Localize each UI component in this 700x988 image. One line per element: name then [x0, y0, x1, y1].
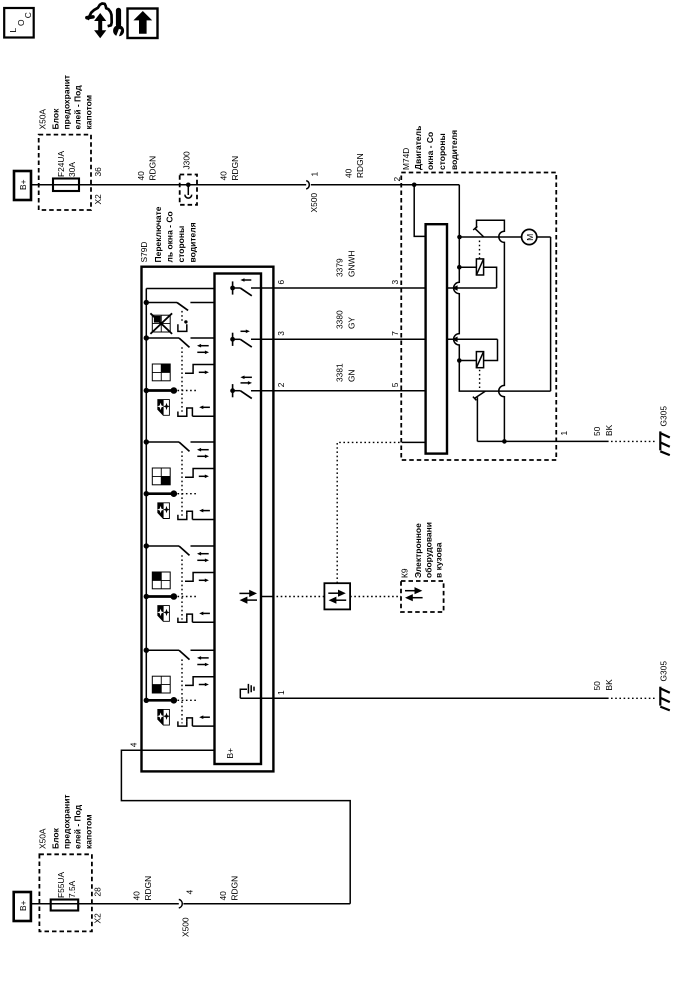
svg-text:40: 40 — [219, 171, 229, 181]
wire v1 supply with crossover loops and to relay2 — [454, 185, 551, 391]
wire label 40 RDGN — [218, 876, 240, 901]
svg-text:S79D: S79D — [139, 242, 149, 263]
svg-text:40: 40 — [136, 171, 146, 181]
svg-text:30A: 30A — [67, 162, 77, 177]
svg-text:40: 40 — [344, 168, 354, 178]
splice J300 — [180, 151, 197, 205]
svg-text:4: 4 — [129, 742, 139, 747]
svg-text:X500: X500 — [309, 193, 319, 213]
svg-text:ль окна - Со: ль окна - Со — [165, 211, 175, 262]
wire fuse to J300 to X500 — [53, 184, 306, 186]
svg-text:X2: X2 — [93, 913, 103, 924]
wire module to relay1 coil (pin3 path) with arrowhead — [447, 285, 497, 291]
svg-text:G305: G305 — [659, 661, 669, 682]
svg-text:водителя: водителя — [188, 222, 198, 262]
svg-text:стороны: стороны — [176, 226, 186, 263]
wire coil2 left — [459, 360, 476, 362]
bus wire B+ inside switch — [145, 289, 147, 701]
svg-text:елей - Под: елей - Под — [73, 804, 83, 849]
svg-text:M: M — [525, 234, 535, 241]
wire B+ to fuse — [31, 903, 51, 905]
svg-text:50: 50 — [592, 426, 602, 436]
wire lockout feed — [146, 288, 214, 290]
group 2 position icon — [157, 503, 170, 519]
mechanical link relay2 — [479, 370, 481, 388]
node ground rail — [502, 439, 507, 444]
wire label 50 BK (switch ground) — [592, 679, 614, 691]
svg-text:C: C — [23, 12, 33, 18]
dotted serial data wire to motor module — [337, 442, 402, 583]
svg-text:28: 28 — [93, 887, 103, 897]
group 3 window icon — [152, 572, 170, 589]
motor M74D dashed outline — [401, 173, 556, 461]
svg-text:BK: BK — [604, 424, 614, 436]
wire relay1 common to motor — [459, 236, 521, 238]
wire pin2 to motor pin5 — [251, 390, 426, 392]
label X50A fuse block 2 — [38, 794, 94, 849]
node relay2 coil feed — [457, 358, 462, 363]
svg-text:F24UA: F24UA — [56, 151, 66, 177]
wire module to relay2 coil (pin7 path) with arrowhead — [447, 337, 498, 343]
wire coil1 to pin3 line — [484, 267, 497, 288]
svg-text:X2: X2 — [93, 194, 103, 205]
group 4 express row — [144, 697, 196, 704]
wire label 50 BK — [592, 424, 614, 436]
svg-text:предохранит: предохранит — [62, 75, 72, 130]
wire label 3380 GY — [335, 310, 357, 329]
wire label 3381 GN — [335, 363, 357, 382]
group 2 mechanical link — [181, 451, 183, 517]
switch S79D outer case — [142, 267, 274, 772]
svg-text:стороны: стороны — [437, 133, 447, 170]
group 2 window icon — [152, 468, 170, 485]
svg-text:Блок: Блок — [51, 827, 61, 849]
group 1 mechanical link — [181, 347, 183, 413]
ground G305 (motor) — [659, 406, 670, 455]
wire pin4 B+ feed — [121, 750, 350, 903]
svg-text:3381: 3381 — [335, 363, 345, 382]
svg-text:Блок: Блок — [51, 108, 61, 130]
window module bar U1 — [426, 224, 447, 453]
relay2 coil — [476, 352, 483, 368]
svg-text:J300: J300 — [182, 151, 192, 170]
wire pin6 to motor pin3 — [251, 287, 426, 289]
wire X500 to motor — [311, 184, 460, 186]
svg-text:40: 40 — [132, 891, 142, 901]
dotted wire to ground G305 switch — [611, 697, 655, 699]
label X50A fuse block — [38, 75, 94, 130]
group 4 actuator bracket — [178, 715, 215, 726]
connector X500 pin 4 — [179, 890, 195, 938]
group 1 position icon — [157, 400, 170, 416]
svg-text:предохранит: предохранит — [62, 794, 72, 849]
svg-text:5: 5 — [390, 382, 400, 387]
svg-text:водителя: водителя — [449, 130, 459, 170]
node pin2 junction — [412, 183, 417, 188]
svg-text:B+: B+ — [18, 179, 28, 190]
svg-text:Электронное: Электронное — [413, 523, 423, 578]
wire pin3 to motor pin7 — [251, 338, 426, 340]
fuse F55UA 7.5A — [51, 872, 78, 911]
label S79D window switch driver side — [139, 206, 198, 262]
group 3 window switch (up/down contacts) — [144, 543, 215, 582]
svg-text:1: 1 — [559, 431, 569, 436]
output contact pin 6 — [230, 281, 252, 295]
group 3 mechanical link — [181, 555, 183, 619]
group 2 actuator bracket — [178, 509, 215, 520]
svg-text:капотом: капотом — [84, 814, 94, 849]
battery B+ feed (bottom circuit) — [14, 892, 31, 921]
motor armature M — [522, 229, 537, 244]
svg-text:RDGN: RDGN — [355, 153, 365, 178]
svg-text:36: 36 — [93, 167, 103, 177]
serial data junction icon — [324, 583, 350, 609]
wire coil1 left — [459, 266, 476, 268]
svg-text:G305: G305 — [659, 406, 669, 427]
svg-text:X50A: X50A — [38, 109, 48, 130]
label M74D window motor driver side — [401, 126, 459, 170]
ground G305 (switch) — [659, 661, 670, 711]
svg-text:в кузова: в кузова — [434, 542, 444, 578]
lockout switch contact — [144, 300, 215, 311]
node relay1 coil feed — [457, 265, 462, 270]
svg-text:елей - Под: елей - Под — [73, 85, 83, 130]
group 4 window switch (up/down contacts) — [144, 648, 215, 687]
svg-text:2: 2 — [276, 382, 286, 387]
svg-text:GY: GY — [347, 316, 357, 329]
connector X500 pin 1 — [306, 172, 319, 213]
svg-text:7.5A: 7.5A — [67, 880, 77, 898]
svg-text:GN: GN — [347, 369, 357, 382]
arrows express symbol pin 2 — [240, 376, 252, 385]
icon boxed up-arrow — [128, 9, 158, 39]
svg-text:RDGN: RDGN — [230, 876, 240, 901]
wire switch pin1 to ground — [240, 697, 608, 699]
wire motor to right rail — [537, 237, 551, 391]
wire X500 to switch pin4 riser — [183, 903, 350, 905]
svg-text:B+: B+ — [18, 900, 28, 911]
fuse F24UA 30A — [53, 151, 79, 191]
svg-text:O: O — [16, 19, 26, 26]
wire label 40 RDGN — [132, 876, 154, 901]
group 1 window icon — [152, 364, 170, 381]
wire serial data inside motor — [402, 441, 426, 443]
output contact pin 2 — [230, 384, 252, 398]
svg-text:X50A: X50A — [38, 828, 48, 849]
svg-text:2: 2 — [392, 177, 402, 182]
wire label 3379 GNWH — [335, 250, 357, 277]
svg-text:К9: К9 — [400, 568, 410, 578]
svg-text:RDGN: RDGN — [143, 876, 153, 901]
serial data symbol inside switch module — [239, 590, 257, 604]
svg-text:3379: 3379 — [335, 258, 345, 277]
svg-text:Переключате: Переключате — [153, 206, 163, 262]
wire B+ to fuse block — [31, 184, 53, 186]
output contact pin 3 — [230, 333, 252, 347]
group 4 mechanical link — [181, 659, 183, 723]
svg-text:40: 40 — [218, 891, 228, 901]
svg-text:50: 50 — [592, 681, 602, 691]
switch module inner box — [215, 274, 262, 765]
relay1 fixed contact flag and rail — [477, 220, 505, 441]
icon window-express with tool — [87, 4, 124, 39]
svg-text:RDGN: RDGN — [148, 156, 158, 181]
svg-text:GNWH: GNWH — [347, 250, 357, 277]
svg-text:M74D: M74D — [401, 148, 411, 170]
svg-text:L: L — [8, 28, 18, 33]
wire ground rail to pin1 — [477, 440, 608, 442]
wire coil2 to pin7 line — [484, 339, 498, 360]
mechanical link relay1 — [479, 241, 481, 259]
dotted serial data wire to K9 — [350, 596, 401, 598]
arrow up symbol pin 6 — [240, 278, 251, 282]
svg-text:3380: 3380 — [335, 310, 345, 329]
arrow down symbol pin 3 — [241, 330, 250, 334]
group 3 express row — [144, 593, 196, 600]
svg-text:B+: B+ — [225, 748, 235, 759]
group 2 express row — [144, 490, 196, 497]
svg-text:1: 1 — [310, 172, 320, 177]
dotted serial data wire to junction icon — [277, 596, 325, 598]
lockout window icon crossed — [150, 313, 172, 334]
wire pin2 junction to module — [414, 185, 425, 237]
svg-text:окна - Со: окна - Со — [425, 132, 435, 170]
wire serial data out of switch — [261, 596, 273, 598]
LOC indicator box — [4, 8, 34, 38]
group 1 window switch (up/down contacts) — [144, 335, 215, 374]
wire label 40 RDGN — [344, 153, 366, 178]
group 1 actuator bracket — [178, 406, 215, 417]
svg-text:7: 7 — [390, 331, 400, 336]
K9 body control module dashed box — [401, 581, 444, 612]
battery B+ feed (top circuit) — [14, 171, 31, 200]
svg-text:3: 3 — [390, 280, 400, 285]
dotted wire to ground G305 — [611, 440, 655, 442]
label K9 body electronics — [400, 522, 444, 578]
group 3 position icon — [157, 606, 170, 622]
group 2 window switch (up/down contacts) — [144, 439, 215, 478]
lockout mechanical link — [181, 311, 183, 321]
relay2 contact blade — [473, 391, 486, 400]
group 4 position icon — [157, 709, 170, 725]
wire fuse to X500 — [51, 903, 179, 905]
fuse block X50A (underhood) dashed box — [39, 135, 91, 210]
group 3 actuator bracket — [178, 612, 215, 623]
relay1 coil — [476, 259, 483, 275]
relay2 fixed contact flag — [476, 397, 478, 441]
node relay1 common — [457, 235, 462, 240]
svg-text:капотом: капотом — [84, 95, 94, 130]
svg-text:BK: BK — [604, 679, 614, 691]
fuse block X50A (underhood) dashed box 2 — [39, 854, 92, 931]
svg-text:3: 3 — [276, 331, 286, 336]
svg-text:4: 4 — [185, 890, 195, 895]
wire label 40 RDGN — [219, 156, 241, 181]
svg-text:Двигатель: Двигатель — [413, 126, 423, 170]
wire label 40 RDGN — [136, 156, 158, 181]
lockout actuator bracket — [178, 320, 188, 331]
svg-text:X500: X500 — [181, 917, 191, 937]
svg-text:RDGN: RDGN — [230, 156, 240, 181]
group 1 express row — [144, 387, 196, 394]
svg-text:1: 1 — [276, 690, 286, 695]
relay1 contact blade — [473, 226, 484, 237]
svg-text:оборудовани: оборудовани — [424, 522, 434, 578]
ground symbol inside switch module — [240, 684, 254, 698]
svg-text:6: 6 — [276, 280, 286, 285]
svg-text:F55UA: F55UA — [56, 872, 66, 898]
group 4 window icon — [152, 676, 170, 693]
